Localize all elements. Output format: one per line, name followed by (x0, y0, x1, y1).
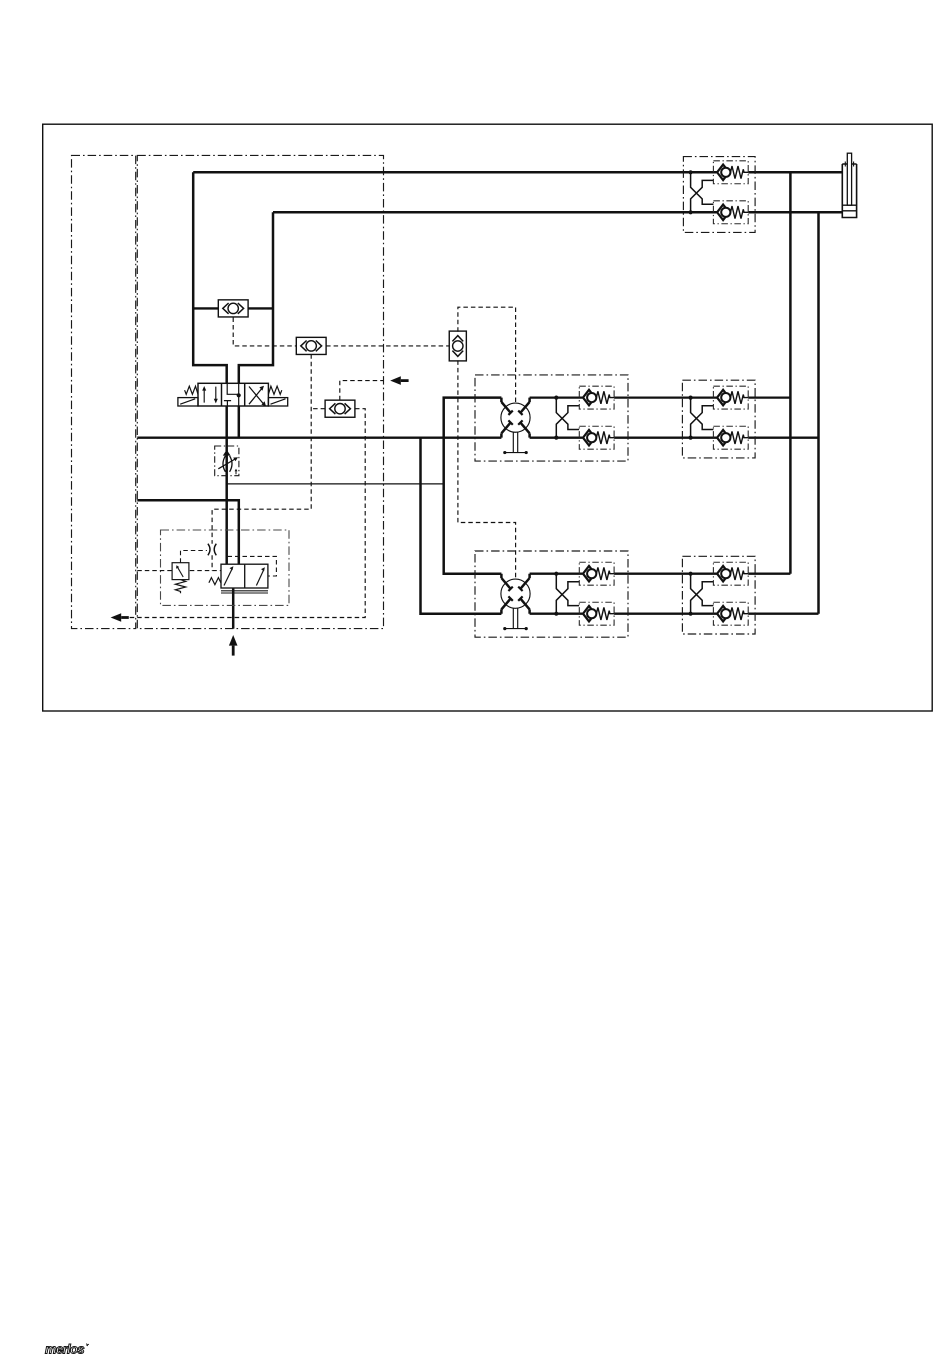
wire B to cylinder (748, 211, 842, 214)
priority valve PV (209, 564, 268, 593)
wire T return run (137, 437, 501, 439)
wire B top run (273, 211, 717, 214)
arrow left drain (111, 613, 122, 622)
motor M2 (501, 574, 530, 631)
pilot dashed relief (181, 551, 207, 563)
frame border (43, 124, 933, 711)
counterbalance CB3 cross (689, 572, 714, 616)
pump block enclosure (161, 530, 290, 605)
wire motor top link (444, 398, 502, 574)
pilot dashed Q1-Q2-Q4 (233, 318, 449, 346)
counterbalance CB3 check bottom (713, 602, 748, 625)
logo merlo (45, 1342, 89, 1357)
wire pump branch (137, 500, 239, 564)
wire B drop right (817, 212, 820, 613)
wire motor2 return (421, 438, 502, 614)
dash-dot enclosure tank box (72, 155, 136, 628)
wire motor1 right top (530, 396, 583, 398)
wire motor2 right top (530, 573, 583, 575)
counterbalance CB2 check top (713, 386, 748, 409)
wire A riser (193, 172, 227, 383)
counterbalance CB2 enclosure (682, 380, 755, 458)
coupling Q2 (296, 337, 326, 354)
motor M1 (501, 398, 530, 455)
counterbalance CB1 cross (689, 170, 714, 214)
motor M1 check bottom (579, 426, 614, 449)
motor M1 check top (579, 386, 614, 409)
motor M2 check top (579, 562, 614, 585)
motor M2 enclosure (475, 551, 628, 637)
pilot dashed Q2 drop to orifice (212, 354, 311, 570)
flow control F1 (215, 446, 239, 476)
arrow left pilot (390, 376, 401, 385)
motor M1 enclosure (475, 375, 628, 461)
counterbalance CB1 check top (713, 161, 748, 184)
counterbalance CB1 enclosure (683, 157, 755, 233)
pilot dashed motor frame (458, 307, 516, 579)
orifice O1 (208, 544, 216, 556)
counterbalance CB3 check top (713, 562, 748, 585)
wire motor2 right bottom (530, 613, 583, 615)
counterbalance CB2 cross (689, 396, 714, 440)
coupling Q1 (193, 307, 273, 309)
wire bottom bottom to drop (748, 613, 818, 615)
coupling Q3 (325, 400, 355, 417)
pilot dashed priority valve (228, 556, 277, 576)
counterbalance CB2 check bottom (713, 426, 748, 449)
wire T stub (238, 406, 241, 438)
counterbalance CB1 check bottom (713, 201, 748, 224)
wire motor supply thin (227, 483, 444, 485)
wire B riser (239, 212, 273, 383)
wire A top run (193, 171, 717, 174)
pilot dashed Q3 left (311, 408, 325, 410)
motor M1 cross (554, 396, 579, 440)
wire pump inlet (232, 588, 235, 629)
pilot dashed Q3 right drain (130, 409, 366, 618)
wire bottom top to drop (748, 573, 790, 575)
svg-text:merlos: merlos (45, 1342, 84, 1357)
wire A drop right (789, 172, 792, 573)
pilot line tank (137, 570, 221, 572)
wire mid top to drop (748, 396, 790, 398)
motor M2 check bottom (579, 602, 614, 625)
wire mid top interblock (614, 396, 717, 398)
arrow pump inlet (229, 635, 238, 646)
relief valve RV (172, 563, 189, 594)
pilot dashed Q3 top to arrow (340, 381, 384, 401)
wire A to cylinder (748, 171, 842, 174)
wire mid bottom to drop (748, 437, 818, 439)
wire bottom bottom interblock (614, 613, 717, 615)
cylinder CYL (842, 153, 856, 217)
counterbalance CB3 enclosure (682, 556, 755, 634)
wire motor1 right bottom (530, 437, 583, 439)
dash-dot enclosure main valve box (137, 155, 383, 628)
wire mid bottom interblock (614, 437, 717, 439)
wire P pressure line (225, 406, 228, 564)
directional valve V1 (178, 383, 288, 406)
wire bottom top interblock (614, 573, 717, 575)
motor M2 cross (554, 572, 579, 616)
coupling Q4 vertical (449, 331, 466, 361)
